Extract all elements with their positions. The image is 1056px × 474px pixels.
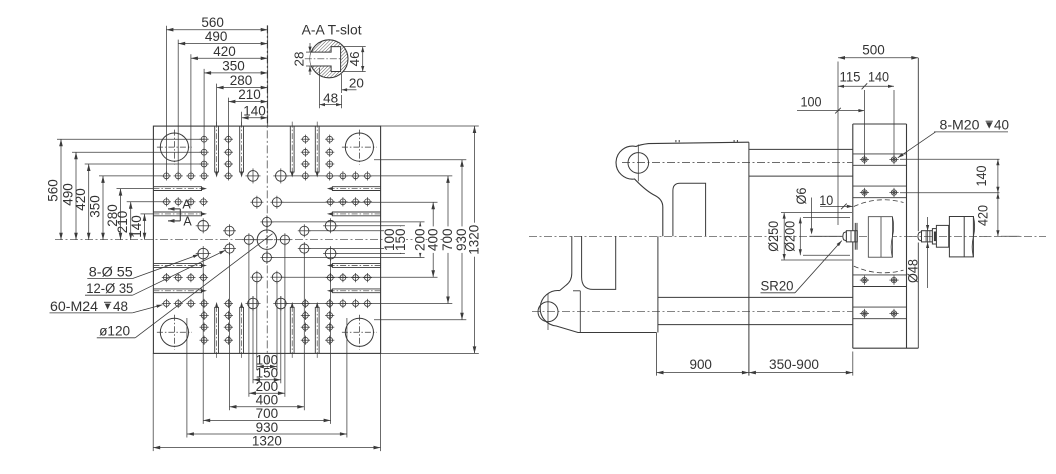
dimension 150 (right chain): [392, 226, 408, 254]
dimension 420 (right chain): [976, 193, 1020, 237]
dimension 100 (right chain): [381, 226, 397, 253]
center locating hole Ø120: [254, 227, 279, 252]
T-slot horizontal left #1: [153, 187, 207, 191]
axis centerline over retracted nozzle: [909, 235, 990, 237]
svg-text:Ø200: Ø200: [783, 221, 798, 252]
dimension 350-900 (bottom): [749, 352, 853, 376]
dimension 930 (bottom chain): [187, 419, 347, 436]
svg-text:400: 400: [424, 228, 440, 251]
svg-text:Ø250: Ø250: [766, 221, 781, 252]
dimension 930 (right chain): [453, 160, 469, 320]
injection barrel block: [949, 217, 974, 257]
top tie bar: [749, 149, 853, 176]
svg-text:Ø6: Ø6: [794, 188, 809, 205]
dimension 420 (top chain): [191, 43, 268, 60]
dimension 350 (left chain): [87, 176, 105, 240]
T-slot horizontal right #4: [327, 289, 381, 293]
dimension 150 (bottom chain): [253, 365, 281, 382]
dimension 10: [819, 193, 853, 209]
dimension 500 (top): [838, 42, 918, 226]
dimension 210 (left chain): [114, 202, 132, 240]
T-slot vertical bottom #3: [290, 302, 294, 358]
svg-text:150: 150: [392, 228, 408, 251]
svg-text:210: 210: [238, 86, 261, 102]
platen horizontal centerline: [55, 239, 458, 241]
svg-text:350: 350: [222, 57, 245, 73]
svg-text:ø120: ø120: [99, 324, 130, 339]
svg-text:20: 20: [349, 76, 364, 91]
stationary platen: [853, 124, 919, 348]
dimension 490 (top chain): [178, 28, 268, 45]
svg-text:350-900: 350-900: [769, 356, 819, 372]
dimension 100 (bottom chain): [256, 351, 279, 368]
Ø55 holes (8-Ø55): [196, 168, 338, 311]
dimension 100 (top): [797, 95, 864, 114]
nozzle axis centerline: [529, 235, 1046, 237]
dimension 280 (left chain): [104, 189, 122, 240]
detail dimension 28: [292, 43, 314, 75]
A-A T-slot detail hatched section: [305, 40, 348, 78]
tie-bar hole top-right: [342, 130, 377, 165]
injection nozzle in contact position: [843, 223, 857, 250]
svg-text:490: 490: [205, 28, 228, 44]
dimension Ø200: [783, 217, 850, 255]
label Ø120 with leader: [97, 234, 273, 339]
dimension 200 (right chain): [411, 222, 427, 258]
svg-text:A: A: [183, 214, 192, 228]
right dimension chain extension lines: [272, 126, 479, 353]
svg-text:1320: 1320: [252, 432, 282, 448]
T-slot horizontal right #1: [327, 187, 381, 191]
T-slot horizontal left #3: [153, 264, 207, 268]
svg-text:115: 115: [840, 70, 861, 85]
svg-text:46: 46: [347, 51, 362, 66]
svg-text:1320: 1320: [466, 225, 482, 255]
svg-text:560: 560: [45, 179, 61, 202]
svg-text:28: 28: [292, 52, 307, 67]
svg-text:420: 420: [976, 205, 991, 226]
T-slot vertical top #3: [290, 122, 294, 178]
dimension 210 (top chain): [228, 86, 267, 103]
svg-text:SR20: SR20: [761, 278, 794, 293]
dimension 400 (bottom chain): [230, 392, 305, 409]
injection unit retracted nozzle: [918, 225, 949, 247]
svg-text:140: 140: [974, 166, 989, 187]
detail dimension 20: [342, 74, 364, 93]
T-slot vertical bottom #2: [240, 302, 244, 358]
dimension 560 (top chain): [166, 14, 267, 31]
section A-A marker: [168, 197, 192, 228]
dimension 420 (left chain): [72, 164, 90, 240]
dimension 700 (bottom chain): [203, 405, 330, 422]
dimension 140 (left chain): [128, 214, 146, 240]
dimension 1320 (bottom chain): [153, 432, 380, 449]
tie-bar hole bottom-left: [157, 315, 192, 350]
svg-text:A-A T-slot: A-A T-slot: [302, 23, 362, 38]
bottom tie-bar centerline: [532, 311, 852, 313]
dimension 350 (top chain): [204, 57, 268, 74]
dimension 280 (top chain): [217, 72, 268, 89]
tie-bar hole top-left: [157, 130, 192, 165]
svg-text:60-M24: 60-M24: [50, 299, 99, 314]
dimension 490 (left chain): [60, 152, 78, 240]
svg-text:100: 100: [801, 95, 822, 110]
dimension 200 (bottom chain): [249, 378, 285, 395]
top tie-bar lug hole: [628, 153, 649, 174]
svg-text:500: 500: [862, 42, 885, 58]
label 8-M20 depth 40 with leader: [898, 117, 1009, 158]
stationary platen mounting holes: [860, 155, 899, 318]
svg-text:900: 900: [689, 356, 712, 372]
top tie-bar centerline: [622, 162, 852, 164]
svg-text:12-Ø 35: 12-Ø 35: [86, 281, 133, 296]
T-slot vertical top #2: [240, 122, 244, 178]
T-slot vertical bottom #1: [215, 302, 219, 358]
bottom tie-bar lug hole: [538, 302, 558, 322]
svg-text:140: 140: [243, 102, 266, 118]
mold phantom outline: [854, 200, 904, 273]
moving platen outline: [616, 140, 749, 376]
dimension 700 (right chain): [439, 176, 455, 304]
dimension 140 (top chain): [242, 102, 268, 119]
svg-text:Ø48: Ø48: [906, 259, 921, 283]
T-slot horizontal right #2: [327, 212, 381, 216]
nozzle bore centerline: [809, 235, 842, 237]
svg-text:8-Ø 55: 8-Ø 55: [89, 265, 133, 280]
platen outline (front view): [153, 126, 380, 353]
dimension 400 (right chain): [424, 202, 440, 277]
tie-bar hole bottom-right: [342, 315, 377, 350]
svg-text:40: 40: [994, 117, 1009, 132]
label 12-Ø35 with leader: [85, 250, 225, 296]
dimension Ø6 with leader: [794, 188, 813, 235]
stationary platen rear edge: [917, 58, 919, 231]
dimension 140 (right chain): [900, 159, 1000, 192]
T-slot vertical bottom #4: [315, 302, 319, 358]
M24 tapped hole grid (60-M24): [162, 135, 372, 345]
T-slot horizontal left #2: [153, 212, 207, 216]
svg-text:420: 420: [213, 43, 236, 59]
T-slot horizontal right #3: [327, 264, 381, 268]
T-slot horizontal left #4: [153, 289, 207, 293]
bottom dimension chain extension lines: [153, 244, 380, 451]
svg-text:48: 48: [113, 299, 128, 314]
label SR20 with leader: [761, 241, 842, 294]
platen vertical centerline: [266, 25, 268, 372]
svg-text:A: A: [182, 197, 191, 211]
svg-text:140: 140: [868, 70, 889, 85]
T-slot vertical top #1: [215, 122, 219, 178]
T-slot vertical top #4: [315, 122, 319, 178]
svg-text:8-M20: 8-M20: [940, 117, 980, 132]
dimension 900 (bottom): [657, 336, 749, 376]
top dimension chain extension lines: [166, 25, 267, 176]
left dimension chain extension lines: [57, 139, 204, 214]
moving platen lower body and foot: [540, 236, 658, 375]
svg-text:10: 10: [819, 193, 833, 208]
dimension Ø48: [906, 217, 930, 288]
dimension 1320 (right chain): [466, 126, 482, 353]
bottom tie bar: [658, 297, 853, 324]
svg-text:140: 140: [128, 215, 144, 238]
label 60-M24 depth 48 with leader: [50, 299, 163, 314]
detail dimension 48: [320, 68, 342, 108]
detail dimension 46: [343, 47, 366, 72]
dimension Ø250: [766, 213, 852, 260]
dimension 560 (left chain): [45, 139, 63, 240]
dimension 115 / 140 (top): [838, 70, 894, 160]
label 8-Ø55 with leader: [87, 255, 199, 280]
Ø35 holes (12-Ø35): [223, 196, 311, 284]
svg-text:350: 350: [87, 195, 103, 218]
svg-text:48: 48: [323, 90, 338, 105]
